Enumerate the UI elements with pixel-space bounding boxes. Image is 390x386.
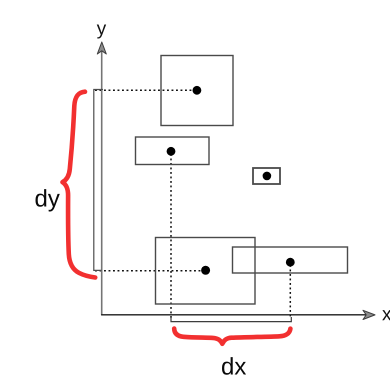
box B1 top square — [161, 56, 233, 126]
dotted guide vertical at x=171 (center of mid box) — [170, 154, 172, 319]
label dx — [222, 357, 246, 375]
center dot of B2 — [167, 147, 176, 156]
y-axis arrowhead — [97, 42, 106, 54]
x-axis arrowhead — [363, 310, 375, 319]
red curly brace dy — [63, 92, 96, 278]
y-axis — [101, 49, 103, 315]
dx extent bracket (thin, under x-axis) — [171, 317, 291, 322]
red curly brace dx — [174, 329, 290, 344]
axis label y — [97, 25, 106, 39]
dotted guide horizontal at y=270 (center of big bottom box) — [95, 270, 205, 272]
center dot of B1 — [193, 86, 202, 95]
dotted guide vertical at x=290 (center of wide box) — [289, 265, 291, 319]
box B3 small rectangle — [253, 168, 280, 184]
center dot of B3 — [263, 172, 272, 181]
label dy — [36, 189, 60, 211]
axis label x — [382, 310, 390, 320]
dotted guide horizontal at y=90 (center of top square) — [95, 89, 196, 91]
box B2 mid rectangle — [136, 137, 210, 165]
dy extent bracket (thin, beside y-axis) — [94, 90, 103, 271]
x-axis — [101, 314, 366, 316]
center dot of B4 — [201, 266, 210, 275]
box B4 big bottom rectangle — [156, 238, 256, 305]
center dot of B5 — [286, 258, 295, 267]
box B5 wide rectangle — [233, 247, 348, 273]
